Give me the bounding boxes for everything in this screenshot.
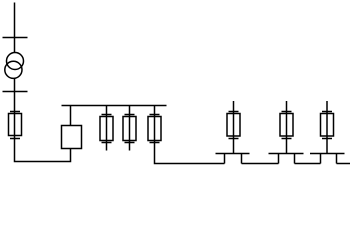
fuse F2 body: [100, 117, 113, 141]
wire G1 right leg: [241, 154, 243, 164]
wire bottom link G3 to edge: [337, 163, 350, 165]
transformer T1 primary winding: [7, 53, 24, 70]
transformer T1 secondary winding: [5, 61, 22, 78]
fuse F2 upper tick: [102, 114, 112, 116]
wire riser fuse F5: [233, 101, 235, 154]
wire incoming feeder (top drop): [14, 3, 16, 53]
fuse F6 lower tick: [282, 138, 292, 140]
fuse F6 upper tick: [282, 111, 292, 113]
fuse F4 upper tick: [150, 114, 160, 116]
wire feeder drop F4 down and right to group G1: [155, 106, 225, 164]
fuse F7 lower tick: [322, 138, 332, 140]
wire G3 left leg: [320, 154, 322, 164]
fuse F5 upper tick: [229, 111, 239, 113]
fuse F4 body: [148, 117, 161, 141]
wire G3 right leg: [336, 154, 338, 164]
fuse F2 lower tick: [102, 142, 112, 144]
fuse F7 upper tick: [322, 111, 332, 113]
fuse F3 upper tick: [125, 114, 135, 116]
wire feeder drop F3: [129, 106, 131, 151]
busbar G1: [216, 153, 250, 155]
wire transformer secondary down to bottom corner and right to load block: [15, 78, 71, 161]
busbar G2: [269, 153, 304, 155]
wire bottom link G1 to G2: [242, 163, 279, 165]
wire G2 right leg: [294, 154, 296, 164]
fuse F1 lower tick: [10, 138, 20, 140]
wire G2 left leg: [278, 154, 280, 164]
wire riser fuse F7: [326, 101, 328, 154]
fuse F1 body: [9, 114, 22, 136]
fuse F1 upper tick: [10, 111, 20, 113]
fuse F5 lower tick: [229, 138, 239, 140]
node terminal tick lower: [3, 91, 28, 93]
wire busbar to load block M1: [70, 106, 72, 126]
fuse F3 lower tick: [125, 142, 135, 144]
wire bottom link G2 to G3: [295, 163, 321, 165]
wire feeder drop F2: [106, 106, 108, 151]
fuse F4 lower tick: [150, 142, 160, 144]
busbar G3: [310, 153, 345, 155]
wire riser fuse F6: [286, 101, 288, 154]
wire G1 left leg: [224, 154, 226, 164]
fuse F6 body: [280, 114, 293, 137]
fuse F3 body: [123, 117, 136, 141]
fuse F5 body: [227, 114, 240, 137]
load block M1: [62, 126, 82, 149]
fuse F7 body: [321, 114, 334, 137]
busbar B1: [62, 105, 167, 107]
node terminal tick upper: [3, 37, 28, 39]
